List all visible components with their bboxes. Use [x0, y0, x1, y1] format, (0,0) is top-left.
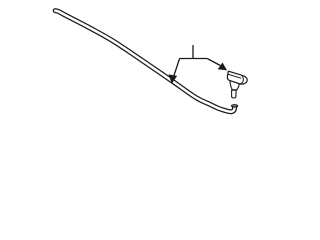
- nozzle N1 nipple: [232, 90, 237, 98]
- nozzle N1 body: [227, 71, 247, 84]
- callout bracket stem: [192, 45, 194, 59]
- arrowhead right (to nozzle): [218, 63, 227, 71]
- arrowhead left (to hose): [169, 74, 178, 83]
- hose P1 inner white fill: [55, 11, 234, 112]
- nozzle N1 top face inner edge: [228, 74, 242, 78]
- leader line left arm: [174, 59, 180, 77]
- callout bracket horizontal: [180, 58, 208, 60]
- hose end opening rim: [232, 105, 238, 107]
- leader line right arm: [207, 59, 220, 66]
- hose P1 outer outline: [55, 11, 234, 112]
- nozzle N1 right end cap inner arc: [240, 75, 244, 84]
- nozzle N1 stem collar: [230, 81, 240, 90]
